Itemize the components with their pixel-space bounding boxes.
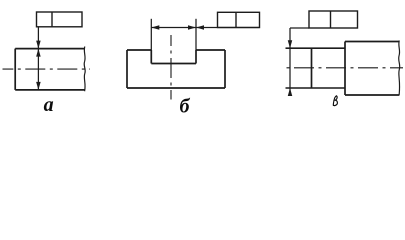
dimension arrow (left, tip at left ext line) xyxy=(151,25,159,30)
small step bottom edge + extension xyxy=(286,87,346,89)
step shoulder face xyxy=(344,42,346,96)
frame F3 divider xyxy=(330,11,332,28)
slot bottom xyxy=(151,63,196,65)
slot right wall xyxy=(195,50,197,64)
tolerance frame F3 xyxy=(309,11,358,28)
small step top edge + extension xyxy=(286,47,346,49)
break line (wavy) xyxy=(399,41,400,96)
block bottom edge xyxy=(127,87,225,89)
block outline xyxy=(127,50,225,88)
dimension arrow (up, tip at bottom ext line) xyxy=(288,88,293,96)
dimension arrow (up, tip at top edge) xyxy=(36,49,41,57)
leader + dimension line (vertical) xyxy=(37,27,39,90)
extension line right xyxy=(195,19,197,50)
leader horizontal from frame xyxy=(290,27,309,29)
shaft outline: top edge xyxy=(15,48,84,50)
extension line left xyxy=(150,19,152,50)
dimension arrow (down, tip at top ext line) xyxy=(288,40,293,48)
dimension line (horizontal) xyxy=(151,27,196,29)
block top edge right segment xyxy=(196,49,225,51)
dimension arrow (down, tip at bottom edge) xyxy=(36,82,41,90)
leader + dimension line (vertical) xyxy=(289,28,291,95)
centerline (horizontal dash-dot) xyxy=(283,67,403,69)
leader arrow (down, tip at top edge) xyxy=(36,41,41,49)
shaft end face xyxy=(311,48,313,88)
big section bottom edge xyxy=(345,94,399,96)
centerline (vertical dash-dot) xyxy=(170,35,172,100)
block top edge left segment xyxy=(127,49,151,51)
slot left wall xyxy=(150,50,152,64)
tolerance frame F2 xyxy=(218,12,260,27)
tolerance frame F1 xyxy=(37,12,83,27)
shaft outline: left end face xyxy=(14,49,16,90)
leader line to frame xyxy=(196,27,260,29)
leader arrow (left, tip at right ext line, from outside) xyxy=(196,25,204,30)
big section top edge xyxy=(345,41,399,43)
centerline (horizontal dash-dot) xyxy=(3,68,91,70)
frame F2 divider xyxy=(235,12,237,27)
block left edge xyxy=(126,50,128,88)
shaft outline: bottom edge xyxy=(15,89,84,91)
svg-text:а: а xyxy=(44,94,54,116)
dimension arrow (right, tip at right ext line) xyxy=(188,25,196,30)
label v xyxy=(333,96,337,106)
break line (wavy) xyxy=(84,47,85,92)
block right edge xyxy=(224,50,226,88)
frame F1 divider xyxy=(51,12,53,27)
svg-text:б: б xyxy=(180,95,191,117)
